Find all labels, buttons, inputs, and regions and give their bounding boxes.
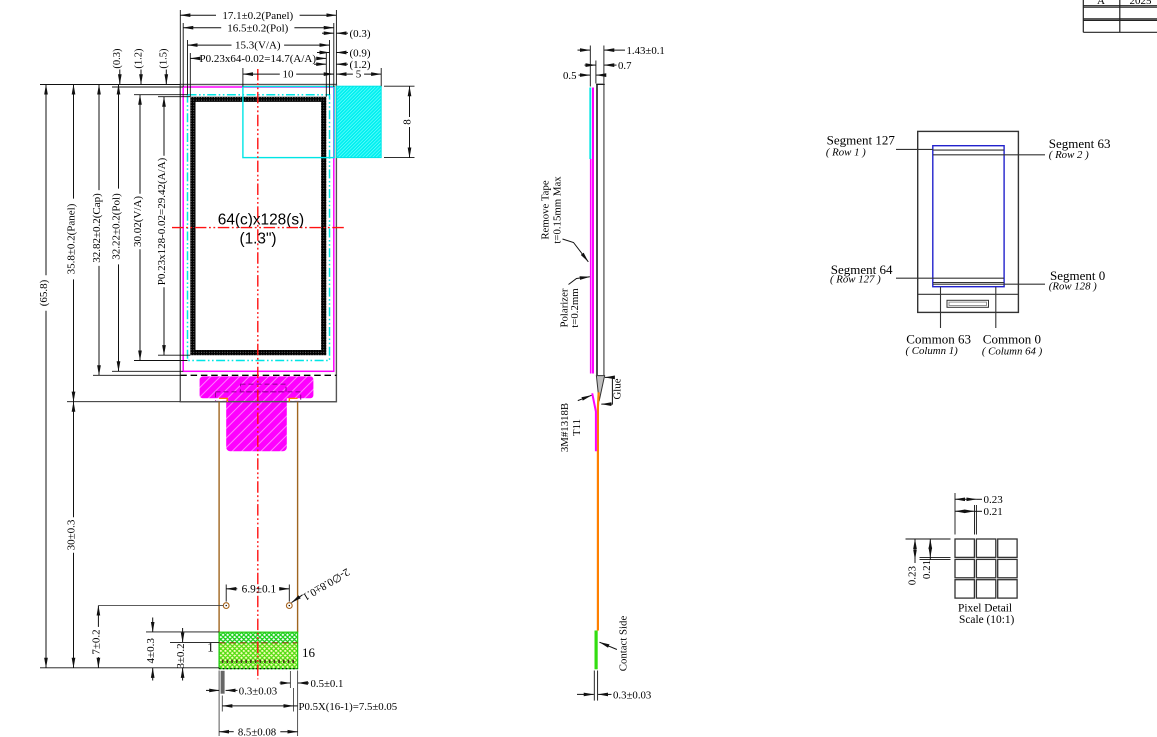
V/A outline cyan dash-dot — [188, 95, 330, 361]
pin end marks row — [222, 660, 294, 663]
ext VA bottom left — [134, 360, 188, 362]
side view glass front line — [596, 84, 598, 375]
segment diagram connector rect — [947, 300, 989, 307]
svg-text:16: 16 — [302, 645, 316, 660]
dimension 0.5±0.1 edge margin — [280, 678, 344, 690]
dimension 14.7 A/A width — [190, 53, 326, 65]
side view polarizer lower widening (magenta) — [590, 159, 592, 374]
panel bottom edge line over T — [180, 401, 336, 403]
ext pin16 down — [293, 688, 295, 712]
ext bend line left — [170, 641, 219, 643]
ext hole center line — [98, 605, 223, 607]
common 0 leader vertical — [995, 287, 997, 328]
active area A/A thick dotted black border — [190, 97, 326, 356]
svg-text:0.23: 0.23 — [984, 494, 1004, 506]
svg-text:35.8±0.2(Panel): 35.8±0.2(Panel) — [66, 203, 78, 274]
cap bottom dashed line — [180, 374, 336, 376]
svg-text:30±0.3: 30±0.3 — [66, 519, 78, 550]
svg-text:16.5±0.2(Pol): 16.5±0.2(Pol) — [227, 22, 288, 34]
FPC shoulder step right (orange) — [289, 398, 297, 401]
label Glue with bracket — [601, 377, 623, 404]
svg-text:0.21: 0.21 — [984, 506, 1003, 518]
svg-text:( Row 2 ): ( Row 2 ) — [1049, 149, 1089, 161]
ext panel top left — [40, 84, 180, 86]
label Contact Side — [600, 616, 630, 672]
svg-text:0.23: 0.23 — [906, 565, 918, 585]
svg-text:30.02(V/A): 30.02(V/A) — [132, 196, 144, 247]
dimension (0.3) right — [322, 28, 371, 40]
revision table partial — [1083, 0, 1157, 32]
svg-text:8.5±0.08: 8.5±0.08 — [238, 726, 276, 737]
FPC right edge (brown) — [297, 402, 299, 633]
dimension (0.9) right — [317, 48, 371, 60]
dimension 0.21 width horizontal — [955, 506, 1003, 518]
dimension 8.5 fpc width — [219, 726, 298, 737]
svg-text:15.3(V/A): 15.3(V/A) — [235, 40, 281, 52]
svg-text:Common 0: Common 0 — [983, 332, 1041, 347]
label Segment 64 — [830, 262, 893, 286]
ext VA left top — [187, 40, 189, 95]
remove tape tab filled square (cyan hatched) — [337, 86, 382, 157]
side view contact side (green) — [594, 631, 597, 670]
dimension 32.22 pol — [111, 85, 123, 372]
svg-text:t=0.2mm: t=0.2mm — [569, 288, 581, 328]
dimension overall (65.8) — [38, 85, 50, 668]
ext AA left top — [189, 53, 191, 97]
dimension (1.5) top-left — [159, 48, 170, 84]
svg-text:4±0.3: 4±0.3 — [145, 638, 157, 664]
contact area bottom edge dotted — [219, 668, 298, 670]
ext panel bottom left — [67, 401, 180, 403]
center line horizontal (red) — [172, 227, 344, 229]
svg-text:P0.23x128-0.02=29.42(A/A): P0.23x128-0.02=29.42(A/A) — [156, 157, 168, 285]
side view glass back line — [603, 84, 605, 375]
ext pol top left — [112, 86, 183, 88]
dimension 0.23 pitch vertical — [906, 539, 918, 585]
FPC hole right — [286, 603, 292, 609]
ext panel right top — [335, 10, 337, 85]
segment row128 line — [933, 282, 1004, 284]
FPC shoulder step left (orange) — [219, 398, 227, 401]
label 3M#1318B T11 — [559, 395, 592, 452]
dimension (1.2) top-left — [133, 48, 144, 84]
svg-text:(Row 128 ): (Row 128 ) — [1049, 281, 1097, 293]
ext pin16 right down — [289, 671, 291, 688]
segment diagram blue viewing rect — [933, 146, 1004, 287]
svg-text:(1.5): (1.5) — [159, 48, 170, 69]
svg-text:Segment 127: Segment 127 — [827, 132, 896, 147]
ext tape tab right top — [380, 68, 382, 86]
svg-text:( Row 127 ): ( Row 127 ) — [830, 274, 881, 286]
svg-text:0.3±0.03: 0.3±0.03 — [239, 685, 277, 697]
svg-text:Pixel Detail: Pixel Detail — [958, 603, 1012, 615]
svg-text:1: 1 — [207, 640, 214, 655]
svg-text:0.5±0.1: 0.5±0.1 — [311, 678, 344, 690]
ext pol right top — [333, 23, 335, 87]
segment 0 leader — [933, 283, 1045, 285]
ext panel left top — [179, 10, 181, 85]
svg-text:(0.9): (0.9) — [350, 48, 371, 60]
svg-text:17.1±0.2(Panel): 17.1±0.2(Panel) — [222, 10, 293, 22]
svg-text:Remove Tape: Remove Tape — [540, 180, 552, 240]
side view fpc line (orange) — [597, 392, 600, 630]
svg-text:Scale (10:1): Scale (10:1) — [959, 614, 1015, 626]
svg-text:(65.8): (65.8) — [38, 279, 50, 306]
common 63 leader vertical — [940, 287, 942, 328]
dimension 32.82 cap — [91, 85, 103, 376]
ext fpc left down — [218, 671, 220, 737]
dimension 0.23 pitch horizontal — [955, 494, 1003, 506]
ext side tape left — [589, 46, 591, 87]
remove tape outline rect (cyan) — [243, 87, 334, 158]
dimension 8 tab height — [402, 86, 414, 157]
ext tape left top — [242, 68, 244, 87]
ext pol bottom left — [112, 370, 183, 372]
ext VA right top — [329, 40, 331, 95]
dimension 0.3±0.03 pin width — [206, 685, 277, 697]
svg-text:6.9±0.1: 6.9±0.1 — [242, 583, 276, 595]
panel outline front view — [180, 85, 336, 402]
svg-text:3±0.2: 3±0.2 — [175, 643, 187, 668]
segment row127 line + segment64 leader — [896, 277, 1004, 279]
ext pol left top — [182, 23, 184, 87]
svg-text:P0.23x64-0.02=14.7(A/A): P0.23x64-0.02=14.7(A/A) — [200, 53, 317, 65]
label Common 0 — [982, 332, 1043, 358]
leader 2-dia0.8 hole callout — [292, 565, 352, 602]
pixel detail ext verticals — [954, 493, 956, 535]
ext fpc bottom left — [40, 667, 219, 669]
svg-text:Contact Side: Contact Side — [618, 616, 630, 672]
dimension 5 tape tab width — [336, 69, 381, 81]
svg-text:7±0.2: 7±0.2 — [90, 629, 102, 654]
label Segment 0 — [1049, 268, 1105, 293]
side view glue fillet — [596, 376, 604, 402]
label Segment 63 — [1049, 136, 1111, 161]
segment diagram divider line — [918, 293, 1019, 295]
svg-text:0.3±0.03: 0.3±0.03 — [613, 689, 651, 701]
FPC left edge (brown) — [218, 402, 220, 633]
dimension 6.9 hole spacing — [226, 583, 289, 595]
side view glass top cap — [596, 83, 605, 85]
ext hole left up — [225, 585, 227, 602]
dimension 0.7 glass thickness — [585, 60, 633, 72]
svg-text:0.7: 0.7 — [618, 60, 632, 72]
side view polarizer (magenta) — [592, 88, 594, 374]
contact gold finger area (green hatched) — [219, 632, 298, 668]
segment row2 line + segment63 leader — [933, 154, 1045, 156]
ext AA bottom left — [158, 354, 190, 356]
svg-text:T11: T11 — [571, 419, 583, 436]
ext contact top left — [146, 631, 219, 633]
pixel detail 3x3 grid — [955, 539, 1017, 598]
side view 3M tape (magenta) — [592, 393, 596, 451]
svg-text:( Column 64 ): ( Column 64 ) — [982, 346, 1043, 358]
svg-text:(0.3): (0.3) — [350, 28, 371, 40]
label Remove Tape — [540, 176, 589, 262]
polarizer outline (magenta) — [183, 87, 334, 371]
label Polarizer — [559, 277, 590, 328]
dimension P0.5X(16-1)=7.5±0.05 — [222, 701, 397, 713]
dimension 0.21 height vertical — [921, 539, 933, 579]
ext pin1 left down — [221, 696, 223, 712]
dimension 17.1 panel width — [180, 10, 336, 22]
svg-text:0.5: 0.5 — [563, 70, 577, 82]
ext side glass front — [595, 61, 597, 84]
svg-text:32.82±0.2(Cap): 32.82±0.2(Cap) — [91, 193, 103, 263]
svg-text:( Row 1 ): ( Row 1 ) — [826, 146, 866, 158]
dimension 15.3 V/A width — [188, 40, 330, 52]
dimension 16.5 pol width — [183, 22, 334, 34]
FPC bonding T-shape (magenta hatched) — [200, 376, 314, 451]
ext AA top left — [158, 96, 190, 98]
ext fpc right down — [297, 671, 299, 737]
dimension 7 hole to end — [90, 606, 102, 668]
svg-text:32.22±0.2(Pol): 32.22±0.2(Pol) — [111, 193, 123, 260]
bend dashed line in contact area — [219, 642, 298, 644]
svg-text:0.21: 0.21 — [921, 560, 933, 579]
center line vertical (red) — [257, 69, 259, 679]
IC outline dashed (dark magenta) — [241, 384, 287, 392]
side view remove tape (cyan) — [589, 88, 591, 160]
pin1 electrode bar below contact — [221, 671, 225, 694]
svg-text:(1.2): (1.2) — [350, 59, 371, 71]
ext tab top right — [384, 85, 415, 87]
pixel detail ext horizontals — [906, 538, 951, 540]
svg-text:Glue: Glue — [612, 378, 624, 399]
svg-text:64(c)x128(s): 64(c)x128(s) — [218, 212, 304, 229]
dimension 30.02 V/A — [132, 95, 144, 361]
dimension 3±0.2 — [175, 628, 187, 681]
dimension (1.2) right — [314, 59, 371, 71]
svg-text:8: 8 — [402, 119, 414, 125]
label Segment 127 — [826, 132, 895, 158]
ext VA top left — [134, 94, 188, 96]
svg-text:(0.3): (0.3) — [112, 48, 123, 69]
svg-text:3M#1318B: 3M#1318B — [559, 403, 571, 452]
dimension 10 tape width — [243, 69, 334, 81]
ext cap bottom left — [93, 374, 180, 376]
dimension 30 fpc length — [66, 402, 78, 668]
ext AA right top — [325, 53, 327, 97]
svg-text:P0.5X(16-1)=7.5±0.05: P0.5X(16-1)=7.5±0.05 — [299, 701, 398, 713]
dimension 35.8 panel height — [66, 85, 78, 402]
svg-text:10: 10 — [283, 69, 295, 81]
svg-text:A: A — [1097, 0, 1105, 7]
segment 127 leader — [896, 148, 933, 150]
segment diagram outer rect — [918, 131, 1019, 312]
dimension 1.43±0.1 total thickness — [578, 45, 665, 57]
segment row1 line — [933, 149, 1004, 151]
IC outline 2 dashed (dark magenta) — [216, 392, 301, 402]
svg-text:( Column 1): ( Column 1) — [906, 345, 959, 357]
dimension (0.3) top-left — [112, 48, 123, 84]
svg-text:2025: 2025 — [1130, 0, 1153, 7]
FPC hole left — [223, 603, 229, 609]
dimension 0.3±0.03 side thickness — [577, 671, 651, 702]
ext tab bottom right — [384, 157, 415, 159]
ext side glass back — [603, 46, 605, 84]
dimension 0.5 tape+pol thickness — [563, 70, 603, 82]
dimension 4±0.3 — [145, 618, 157, 681]
svg-text:1.43±0.1: 1.43±0.1 — [627, 45, 665, 57]
ext hole right up — [288, 585, 290, 602]
svg-text:t=0.15mm Max: t=0.15mm Max — [552, 176, 564, 244]
label Common 63 — [906, 331, 971, 357]
dimension 29.42 A/A — [156, 97, 168, 356]
svg-text:(1.2): (1.2) — [133, 48, 144, 69]
